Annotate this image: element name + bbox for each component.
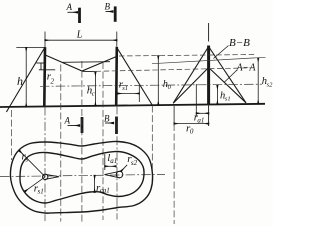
- svg-text:s: s: [25, 156, 28, 164]
- svg-text:L: L: [76, 29, 83, 40]
- svg-text:0: 0: [190, 128, 194, 136]
- svg-text:A: A: [64, 116, 71, 126]
- svg-text:s2: s2: [131, 159, 138, 167]
- svg-text:h: h: [17, 74, 23, 88]
- svg-text:s1: s1: [122, 85, 128, 92]
- svg-text:B: B: [104, 113, 110, 123]
- svg-text:2: 2: [51, 78, 55, 86]
- svg-text:a1: a1: [197, 116, 204, 124]
- svg-text:ca1: ca1: [100, 187, 110, 195]
- svg-text:B: B: [105, 1, 111, 11]
- svg-text:s2: s2: [267, 81, 273, 88]
- svg-text:a1: a1: [110, 157, 117, 165]
- svg-text:A−A: A−A: [236, 62, 257, 73]
- svg-text:s1: s1: [38, 188, 44, 196]
- svg-text:c: c: [92, 90, 95, 97]
- svg-text:A: A: [66, 2, 73, 12]
- svg-text:s1: s1: [225, 95, 231, 102]
- svg-text:B−B: B−B: [229, 37, 250, 49]
